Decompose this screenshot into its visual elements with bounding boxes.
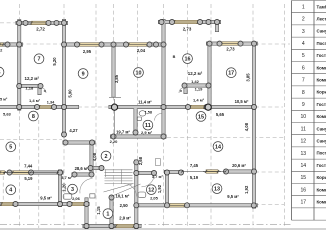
svg-text:5,65: 5,65 [216,112,225,117]
svg-text:Комната: Комната [317,78,326,83]
svg-text:Комната: Комната [317,187,326,192]
svg-text:11,4 м²: 11,4 м² [138,100,152,105]
svg-text:Коридор: Коридор [317,175,326,180]
svg-text:4,08: 4,08 [244,122,249,131]
svg-text:3,7 м²: 3,7 м² [152,174,164,179]
svg-text:2,9 м²: 2,9 м² [141,130,153,135]
svg-text:4,27: 4,27 [69,128,78,133]
svg-text:1,58: 1,58 [145,110,152,114]
svg-text:9,5 м²: 9,5 м² [40,196,52,201]
svg-text:1,19: 1,19 [195,86,204,91]
svg-text:1,18: 1,18 [25,85,34,90]
svg-text:9,5 м²: 9,5 м² [227,194,239,199]
svg-text:17: 17 [228,71,234,77]
svg-text:5: 5 [302,53,305,59]
svg-text:Лестница: Лестница [317,17,326,22]
svg-text:11: 11 [145,123,151,129]
svg-text:1,42: 1,42 [191,79,200,84]
svg-text:7,45: 7,45 [190,163,199,168]
svg-text:1,34: 1,34 [47,101,55,105]
svg-text:4: 4 [302,41,305,47]
svg-text:Коридор: Коридор [317,90,326,95]
svg-text:1,20: 1,20 [62,183,67,192]
svg-text:Санузел: Санузел [317,139,326,144]
svg-text:4,08: 4,08 [92,152,97,161]
svg-text:2: 2 [105,154,108,160]
svg-text:Санузел: Санузел [317,29,326,34]
svg-text:1: 1 [106,212,109,218]
svg-text:16: 16 [185,57,191,63]
svg-text:15: 15 [300,175,306,181]
svg-text:12,2 м²: 12,2 м² [25,76,40,81]
svg-text:Постирочная: Постирочная [317,41,326,46]
svg-text:2,06: 2,06 [72,196,81,201]
svg-text:2,68: 2,68 [138,156,143,165]
svg-text:12: 12 [148,188,154,194]
svg-text:1,15: 1,15 [96,206,101,215]
svg-text:2,73: 2,73 [226,47,235,52]
svg-text:3: 3 [302,29,305,35]
svg-text:20,6 м²: 20,6 м² [232,163,246,168]
svg-text:12: 12 [300,139,306,145]
svg-text:Комната: Комната [317,200,326,205]
svg-text:Комната: Комната [317,65,326,70]
svg-text:5 м²: 5 м² [0,98,8,102]
svg-text:13: 13 [214,187,220,193]
svg-text:2,50: 2,50 [120,203,129,208]
svg-text:Гостиная: Гостиная [317,102,326,107]
svg-text:8: 8 [302,90,305,96]
svg-text:3,85: 3,85 [114,74,119,83]
svg-text:13: 13 [300,151,306,157]
svg-text:19,7 м²: 19,7 м² [116,129,130,134]
svg-text:Постирочная: Постирочная [317,151,326,156]
svg-text:5,19: 5,19 [24,176,33,181]
svg-text:2,20: 2,20 [110,139,119,144]
svg-text:1: 1 [302,4,305,10]
svg-text:5,63: 5,63 [3,111,12,116]
svg-text:2,9 м²: 2,9 м² [119,216,131,221]
svg-text:10,5 м²: 10,5 м² [235,99,249,104]
svg-text:1,92: 1,92 [157,184,162,193]
svg-text:10,1 м²: 10,1 м² [115,193,129,198]
svg-text:5: 5 [9,145,12,151]
svg-text:11: 11 [301,126,306,132]
svg-text:6: 6 [0,70,1,76]
svg-text:9: 9 [82,71,85,77]
svg-text:28,6 м²: 28,6 м² [75,166,89,171]
svg-text:16: 16 [300,187,306,193]
svg-text:2,72: 2,72 [36,27,45,32]
svg-text:Гостиная: Гостиная [317,163,326,168]
svg-text:7: 7 [38,57,41,63]
svg-text:5,90: 5,90 [68,89,73,98]
svg-text:5,20: 5,20 [52,57,57,66]
svg-text:2,95: 2,95 [83,49,92,54]
svg-text:12,2 м²: 12,2 м² [188,71,203,76]
svg-text:7: 7 [302,78,305,84]
svg-text:Тамбур: Тамбур [317,4,326,9]
svg-text:9: 9 [302,102,305,108]
svg-text:14: 14 [300,163,306,169]
svg-text:5,19: 5,19 [190,175,199,180]
svg-text:3,85: 3,85 [245,73,250,82]
svg-text:R: R [180,89,182,93]
svg-text:2,05: 2,05 [150,196,159,201]
svg-text:1,4 м²: 1,4 м² [29,98,41,103]
svg-text:1,4 м²: 1,4 м² [193,98,205,103]
svg-text:17: 17 [300,200,306,206]
svg-text:3: 3 [71,187,74,193]
svg-text:Комната: Комната [317,114,326,119]
svg-text:R: R [44,89,46,93]
svg-text:2,04: 2,04 [137,48,146,53]
svg-text:Гостиная: Гостиная [317,53,326,58]
svg-text:8: 8 [32,114,35,120]
svg-text:3,7 м²: 3,7 м² [61,175,73,180]
svg-text:В: В [173,55,176,59]
svg-text:15: 15 [198,114,204,120]
svg-text:10: 10 [300,114,306,120]
svg-text:1,92: 1,92 [244,185,249,194]
svg-text:7,44: 7,44 [24,164,33,169]
svg-text:6: 6 [302,65,305,71]
svg-text:2,73: 2,73 [183,26,192,31]
svg-text:2: 2 [302,17,305,23]
svg-text:14: 14 [215,144,221,150]
svg-text:10: 10 [136,70,142,76]
svg-text:Санузел: Санузел [317,126,326,131]
svg-text:4: 4 [9,188,12,194]
